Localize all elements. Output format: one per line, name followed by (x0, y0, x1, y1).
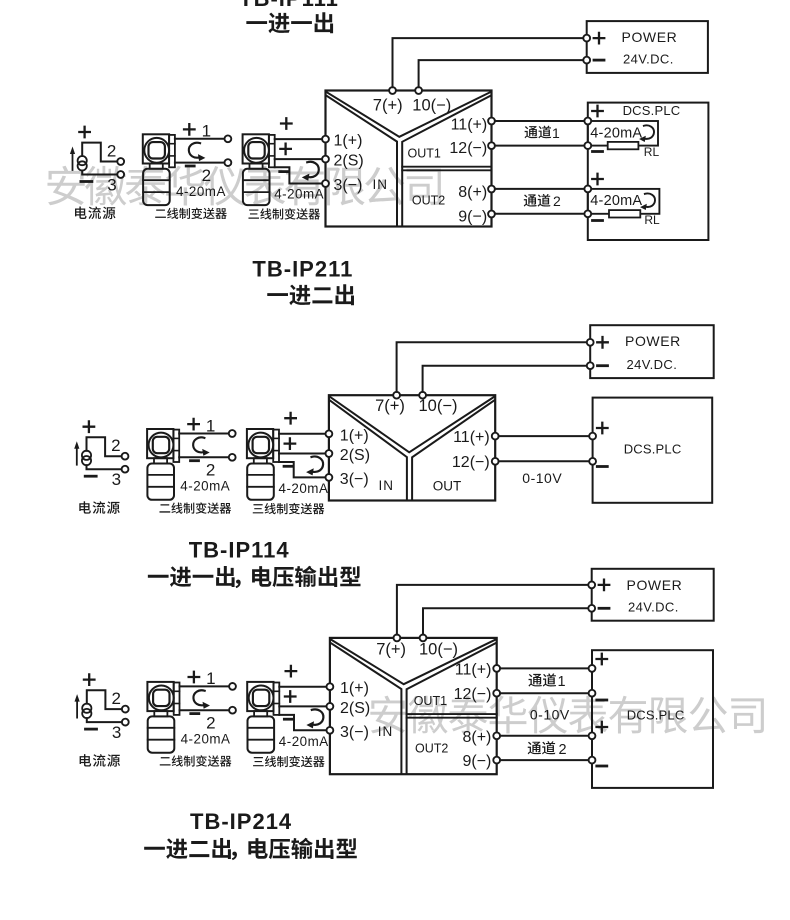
loop arrow (306, 456, 323, 475)
transmitter terminal block (173, 430, 179, 462)
svg-text:RL: RL (644, 145, 660, 159)
svg-text:2(S): 2(S) (340, 700, 370, 717)
svg-text:10(−): 10(−) (419, 397, 458, 415)
pin 11(+) terminal (493, 665, 500, 672)
svg-text:9(−): 9(−) (462, 753, 491, 770)
DCS + sign (597, 423, 608, 434)
svg-text:1: 1 (552, 125, 560, 141)
transmitter head (143, 134, 169, 163)
label + pin1 (285, 413, 296, 424)
wire 11(+) to DCS ch1 + (495, 120, 588, 122)
wire 10(-) to PS2 - (423, 366, 587, 392)
divider IN right edge (330, 400, 407, 499)
wire 3-wire pin1 lead (275, 138, 326, 140)
pin 10(-) terminal (420, 635, 427, 642)
transmitter neck (254, 458, 267, 463)
svg-text:24V.DC.: 24V.DC. (628, 600, 679, 615)
divider OUT left edge (402, 96, 490, 226)
svg-text:TB-IP111: TB-IP111 (239, 0, 339, 11)
divider OUT1/OUT2 upper (402, 166, 491, 168)
PS - sign (598, 364, 608, 367)
svg-text:DCS.PLC: DCS.PLC (624, 442, 682, 457)
svg-text:12(−): 12(−) (449, 140, 487, 157)
PS - sign (599, 607, 609, 610)
wire 12(-) to DCS - (499, 460, 593, 462)
wire 7(+) to PS3 + (397, 585, 589, 635)
transmitter body (143, 169, 170, 205)
divider OUT1/OUT2 lower (407, 717, 497, 719)
wire 10(-) to PS3 - (423, 608, 588, 634)
PS - terminal (587, 362, 594, 369)
svg-text:2: 2 (206, 461, 215, 480)
wire 3-wire pin3 lead (279, 715, 330, 730)
current source terminal 2 (122, 706, 129, 713)
svg-text:11(+): 11(+) (453, 429, 490, 446)
svg-text:4-20mA: 4-20mA (176, 184, 226, 199)
svg-text:TB-IP114: TB-IP114 (189, 537, 290, 562)
svg-text:3: 3 (112, 470, 121, 489)
label + pin1 (281, 118, 292, 129)
svg-text:IN: IN (373, 177, 389, 192)
wire 2-wire - lead (180, 709, 230, 711)
label - pin3 (284, 465, 293, 468)
wire 12(-) to DCS ch1 - (495, 145, 588, 147)
pin 10(-) terminal (419, 392, 426, 399)
transmitter neck (254, 711, 267, 716)
svg-text:OUT2: OUT2 (415, 741, 448, 755)
svg-text:OUT1: OUT1 (414, 694, 447, 708)
transmitter body (148, 716, 175, 752)
DCS ch2 4-20mA loop box (588, 189, 660, 214)
pin 10(-) terminal (415, 87, 422, 94)
transmitter neck (154, 711, 167, 716)
2-wire terminal 1 (229, 430, 236, 437)
label - 2 (191, 712, 199, 715)
svg-text:IN: IN (379, 478, 395, 493)
DCS.PLC box D2 (593, 398, 713, 503)
DCS +2 terminal (589, 732, 596, 739)
loop arrow ch2 (640, 193, 655, 210)
current source terminal 2 (122, 453, 129, 460)
svg-text:4-20mA: 4-20mA (181, 732, 231, 747)
pin 11(+) terminal (488, 118, 495, 125)
svg-text:RL: RL (644, 213, 660, 227)
current source terminal 3 (122, 719, 129, 726)
current source CS1 (70, 143, 117, 175)
wire 10(-) to PS1 - (419, 60, 584, 87)
svg-text:1(+): 1(+) (334, 133, 363, 150)
label + 1 (188, 419, 199, 430)
power supply PS3 box (592, 569, 714, 621)
svg-text:3(−): 3(−) (334, 177, 363, 194)
svg-text:1(+): 1(+) (340, 428, 369, 445)
svg-text:0-10V: 0-10V (522, 470, 562, 486)
divider IN right edge (327, 96, 398, 226)
svg-text:7(+): 7(+) (373, 96, 403, 114)
net label 通道 2 (524, 194, 537, 206)
transmitter head (247, 429, 273, 458)
svg-text:OUT: OUT (433, 479, 462, 494)
PS - terminal (588, 605, 595, 612)
transmitter terminal block (174, 683, 180, 715)
svg-text:OUT2: OUT2 (412, 194, 445, 208)
signal isolator U1 body (326, 91, 492, 227)
svg-text:POWER: POWER (627, 577, 683, 593)
svg-text:3: 3 (112, 723, 121, 742)
wire 9(-) to DCS ch2 - (495, 213, 588, 215)
DCS ch1 4-20mA loop box (588, 121, 658, 146)
wire 9(-) to DCS -2 (500, 759, 592, 761)
DCS - terminal (589, 458, 596, 465)
label - pin3 (284, 718, 293, 721)
svg-text:1: 1 (558, 674, 566, 690)
pin 7(+) terminal (389, 87, 396, 94)
current source + polarity (84, 421, 95, 432)
svg-text:4-20mA: 4-20mA (180, 479, 230, 494)
wire 3-wire pin3 lead (275, 167, 326, 183)
PS - terminal (583, 57, 590, 64)
pin 9(-) terminal (493, 757, 500, 764)
loop arrow (193, 690, 210, 708)
PS + sign (594, 33, 605, 44)
label 电流源 (80, 754, 92, 766)
2-wire terminal 1 (229, 683, 236, 690)
power supply PS2 box (590, 325, 714, 378)
label + 1 (184, 124, 195, 134)
current source - polarity (81, 180, 92, 183)
svg-text:2: 2 (111, 689, 120, 708)
transmitter head (147, 682, 173, 711)
2-wire terminal 2 (229, 454, 236, 461)
title 一进二出 (267, 293, 288, 296)
loop arrow (306, 709, 323, 728)
DCS -1 sign (597, 699, 607, 702)
transmitter body (243, 169, 270, 205)
label 三线制变送器 (253, 757, 264, 766)
svg-text:1: 1 (206, 416, 215, 435)
transmitter body (248, 716, 275, 752)
svg-text:24V.DC.: 24V.DC. (623, 52, 674, 67)
svg-text:0-10V: 0-10V (530, 707, 570, 723)
DCS ch1 + terminal (584, 118, 591, 125)
label + pin1 (286, 666, 297, 677)
divider V upper (331, 640, 496, 685)
current source - polarity (86, 728, 97, 731)
divider OUT left edge (407, 643, 496, 773)
label - pin3 (280, 170, 289, 173)
svg-text:TB-IP211: TB-IP211 (252, 257, 353, 282)
label - 2 (186, 165, 194, 168)
wire 2-wire + lead (180, 685, 230, 687)
svg-text:3(−): 3(−) (340, 471, 369, 488)
wire 11(+) to DCS +1 (500, 667, 592, 669)
pin 3(-) terminal (322, 180, 329, 187)
wire 3-wire pin1 lead (279, 686, 330, 688)
label - 2 (191, 459, 199, 462)
wire 3-wire pin2 lead (279, 705, 330, 707)
svg-text:2: 2 (553, 193, 561, 209)
svg-text:7(+): 7(+) (375, 397, 405, 415)
svg-text:2: 2 (107, 142, 116, 161)
wire 7(+) to PS2 + (397, 342, 587, 392)
svg-text:10(−): 10(−) (419, 641, 458, 659)
svg-text:IN: IN (378, 724, 394, 739)
transmitter neck (150, 164, 163, 169)
pin 12(-) terminal (488, 142, 495, 149)
title 一进一出 (246, 21, 267, 24)
svg-text:9(−): 9(−) (458, 209, 487, 226)
wire 2-wire - lead (179, 456, 229, 458)
label 电流源 (75, 207, 87, 219)
current source terminal 3 (117, 171, 124, 178)
transmitter head (243, 134, 269, 163)
pin 9(-) terminal (488, 211, 495, 218)
svg-text:3(−): 3(−) (340, 724, 369, 741)
DCS + terminal (589, 433, 596, 440)
DCS -2 terminal (589, 757, 596, 764)
DCS ch1 - sign (593, 150, 603, 153)
svg-text:DCS.PLC: DCS.PLC (627, 708, 685, 723)
loop arrow ch1 (639, 125, 654, 142)
DCS -1 terminal (589, 690, 596, 697)
wire 3-wire pin2 lead (279, 453, 329, 455)
current source + polarity (79, 127, 90, 138)
DCS +1 terminal (589, 665, 596, 672)
transmitter head (147, 429, 173, 458)
current source terminal 2 (117, 158, 124, 165)
PS - sign (594, 59, 604, 62)
current source CS3 (75, 690, 122, 722)
resistor RL2 (609, 210, 640, 217)
2-wire terminal 2 (229, 707, 236, 714)
PS + sign (599, 580, 610, 591)
signal isolator U2 body (329, 395, 495, 500)
pin 7(+) terminal (393, 392, 400, 399)
transmitter body (247, 464, 274, 500)
svg-text:OUT1: OUT1 (408, 147, 441, 161)
svg-text:4-20mA: 4-20mA (590, 125, 642, 141)
svg-text:4-20mA: 4-20mA (274, 187, 324, 202)
svg-text:DCS.PLC: DCS.PLC (623, 103, 681, 118)
DCS ch2 + terminal (584, 186, 591, 193)
pin 2(S) terminal (326, 450, 333, 457)
svg-text:11(+): 11(+) (451, 117, 488, 134)
wire 3-wire pin3 lead (279, 462, 329, 477)
wire 2-wire + lead (179, 433, 229, 435)
label + pin2 (280, 144, 291, 155)
svg-text:POWER: POWER (625, 333, 681, 349)
pin 7(+) terminal (394, 635, 401, 642)
wire 7(+) to PS1 + (393, 38, 584, 87)
svg-text:24V.DC.: 24V.DC. (627, 357, 678, 372)
loop arrow (302, 162, 319, 181)
resistor RL1 (608, 142, 639, 149)
pin 12(-) terminal (493, 690, 500, 697)
svg-text:4-20mA: 4-20mA (279, 481, 329, 496)
DCS ch1 + sign (592, 106, 603, 117)
current source terminal 3 (122, 466, 129, 473)
DCS +1 sign (597, 654, 608, 665)
svg-text:2: 2 (206, 714, 215, 733)
divider V upper (330, 397, 494, 453)
pin 8(+) terminal (488, 186, 495, 193)
pin 12(-) terminal (492, 458, 499, 465)
net label 通道 2 (528, 742, 541, 755)
svg-text:8(+): 8(+) (458, 184, 487, 201)
svg-text:4-20mA: 4-20mA (590, 193, 642, 209)
title 一进一出,电压输出型 (148, 575, 169, 578)
DCS - sign (597, 465, 607, 468)
wire 8(+) to DCS +2 (500, 735, 592, 737)
label + 1 (189, 672, 200, 683)
svg-text:1: 1 (206, 669, 215, 688)
title 一进二出,电压输出型 (144, 847, 165, 850)
current source CS2 (74, 437, 121, 469)
DCS +2 sign (597, 722, 608, 733)
svg-text:1(+): 1(+) (340, 680, 369, 697)
loop arrow (193, 437, 210, 455)
transmitter terminal block (269, 135, 275, 167)
DCS.PLC box D3 (592, 650, 713, 788)
wire 3-wire pin1 lead (279, 433, 329, 435)
svg-text:8(+): 8(+) (462, 729, 491, 746)
svg-text:2: 2 (111, 436, 120, 455)
DCS.PLC box D1 (588, 103, 709, 240)
svg-text:10(−): 10(−) (412, 96, 451, 114)
PS + terminal (583, 35, 590, 42)
loop arrow (189, 143, 206, 161)
svg-text:11(+): 11(+) (455, 661, 492, 678)
2-wire terminal 2 (225, 159, 232, 166)
PS + terminal (587, 339, 594, 346)
watermark row 1 安徽泰华仪表有限公司 (47, 166, 440, 206)
DCS ch2 + sign (592, 174, 603, 185)
svg-text:2(S): 2(S) (334, 153, 364, 170)
svg-text:4-20mA: 4-20mA (279, 734, 329, 749)
pin 2(S) terminal (327, 703, 334, 710)
label 二线制变送器 (155, 209, 166, 217)
pin 3(-) terminal (327, 727, 334, 734)
pin 2(S) terminal (322, 156, 329, 163)
svg-text:12(−): 12(−) (454, 686, 492, 703)
current source + polarity (84, 674, 95, 685)
pin 1(+) terminal (327, 683, 334, 690)
wire 8(+) to DCS ch2 + (495, 188, 588, 190)
DCS -2 sign (597, 765, 607, 768)
2-wire terminal 1 (225, 135, 232, 142)
divider OUT1/OUT2 lower (402, 169, 491, 171)
pin 1(+) terminal (322, 136, 329, 143)
wire 2-wire + lead (175, 138, 225, 140)
DCS ch1 - terminal (584, 142, 591, 149)
transmitter body (147, 464, 174, 500)
current source - polarity (85, 475, 96, 478)
svg-text:7(+): 7(+) (376, 641, 406, 659)
transmitter terminal block (273, 430, 279, 462)
transmitter head (247, 682, 273, 711)
label 三线制变送器 (248, 209, 259, 218)
transmitter terminal block (169, 135, 175, 167)
divider V upper (327, 92, 491, 137)
svg-text:2: 2 (202, 166, 211, 185)
divider IN right edge (331, 643, 402, 773)
DCS ch2 - terminal (584, 210, 591, 217)
divider OUT left edge (412, 400, 494, 499)
net label 通道1 (525, 126, 538, 138)
label 二线制变送器 (160, 757, 171, 765)
label 三线制变送器 (253, 504, 264, 513)
svg-text:2(S): 2(S) (340, 447, 370, 464)
svg-text:1: 1 (202, 122, 211, 141)
label + pin2 (285, 691, 296, 702)
wire 3-wire pin2 lead (275, 158, 326, 160)
transmitter neck (250, 164, 263, 169)
power supply PS1 box (587, 21, 708, 73)
svg-text:POWER: POWER (622, 29, 678, 45)
svg-text:2: 2 (559, 742, 567, 758)
DCS ch2 - sign (593, 219, 603, 222)
PS + sign (597, 337, 608, 348)
PS + terminal (588, 582, 595, 589)
wire 11(+) to DCS + (499, 435, 593, 437)
svg-text:12(−): 12(−) (452, 454, 490, 471)
label + pin2 (285, 438, 296, 449)
label 二线制变送器 (159, 504, 170, 512)
pin 11(+) terminal (492, 433, 499, 440)
pin 3(-) terminal (326, 474, 333, 481)
wire 12(-) to DCS -1 (500, 692, 592, 694)
transmitter neck (154, 458, 167, 463)
svg-text:3: 3 (107, 176, 116, 195)
svg-text:TB-IP214: TB-IP214 (190, 809, 292, 834)
watermark row 2 安徽泰华仪表有限公司 (370, 696, 764, 734)
pin 1(+) terminal (326, 430, 333, 437)
wire 2-wire - lead (175, 162, 225, 164)
transmitter terminal block (274, 683, 280, 715)
net label 通道1 (528, 674, 541, 687)
pin 8(+) terminal (493, 732, 500, 739)
label 电流源 (79, 501, 91, 513)
divider OUT1/OUT2 upper (407, 713, 497, 715)
signal isolator U3 body (330, 638, 497, 774)
